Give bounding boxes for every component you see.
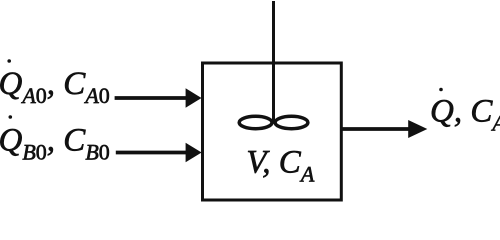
svg-text:QB0, CB0: QB0, CB0 — [0, 123, 110, 165]
dot over Q of outlet label — [439, 88, 443, 92]
inlet A wire — [115, 96, 187, 100]
svg-text:Q, CA: Q, CA — [430, 94, 500, 136]
outlet wire — [340, 127, 410, 131]
impeller left blade — [239, 116, 272, 128]
inlet B arrowhead — [186, 143, 202, 163]
inlet B wire — [116, 151, 187, 155]
stirrer shaft wire — [272, 1, 275, 122]
impeller right blade — [275, 116, 308, 128]
dot over Q of inlet B label — [9, 115, 13, 119]
inlet A arrowhead — [186, 88, 202, 108]
dot over Q of inlet A label — [7, 59, 11, 63]
outlet arrowhead — [408, 120, 427, 138]
reactor tank box — [203, 63, 342, 200]
svg-text:QA0, CA0: QA0, CA0 — [0, 66, 110, 108]
svg-text:V, CA: V, CA — [246, 145, 314, 187]
